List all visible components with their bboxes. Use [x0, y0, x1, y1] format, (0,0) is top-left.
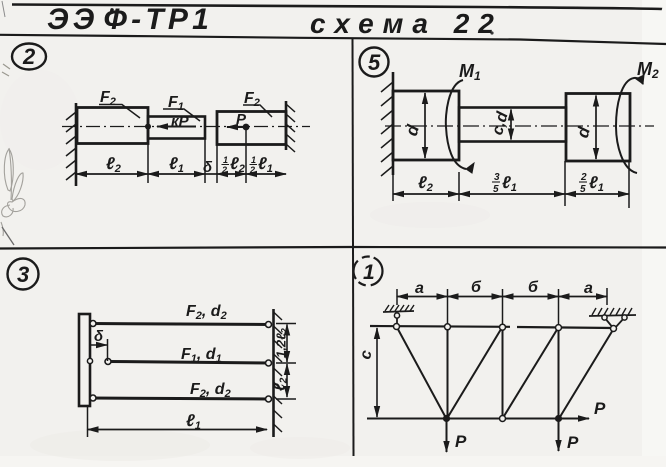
fig2 dimension line half-l1 [246, 173, 286, 175]
fig5 dim label 3/5 l1 [492, 172, 517, 195]
svg-text:2: 2 [22, 44, 36, 69]
frame: header underline [0, 35, 666, 44]
fig2 dimension line half-l2 [217, 173, 246, 175]
circle label 3 [8, 259, 39, 290]
svg-text:а: а [415, 280, 424, 297]
fig2 bar segment F1 (middle rectangle) [148, 117, 205, 139]
fig1 right support hatching [589, 315, 636, 316]
fig5 axis center line [385, 125, 654, 127]
fig5 extension lines [393, 161, 629, 208]
fig3 top rod F2,d2 [90, 324, 270, 325]
fig1 dimension a (right) [559, 296, 608, 298]
frame: middle horizontal divider [0, 247, 666, 249]
fig3 left plate [79, 314, 90, 406]
circle label 2 [12, 44, 46, 70]
header text: схема 22 [490, 31, 493, 34]
fig2 bar segment F2 (left rectangle) [77, 108, 148, 144]
svg-text:кР: кР [171, 113, 190, 130]
fig2 force arrow P pointing left [227, 126, 243, 128]
header text: ЭЭФ-ТР1 [109, 8, 114, 15]
fig1 truss diagonals [397, 327, 614, 419]
fig1 bottom chord line with force P arrow to the right [367, 418, 589, 420]
svg-text:5: 5 [580, 184, 586, 195]
stray diagonal above circle 3 [2, 227, 14, 245]
svg-text:2: 2 [580, 172, 587, 183]
fig5 torque arc M1 [446, 80, 466, 169]
circle label 1 (sketchy) [354, 257, 383, 286]
svg-text:1: 1 [363, 261, 375, 284]
fig2 node dot P application [243, 124, 250, 131]
fig2 dimension line delta segment [205, 173, 217, 175]
svg-text:5: 5 [368, 50, 381, 75]
fig5 left wall [392, 72, 395, 175]
fig1 left support hatching [383, 311, 414, 312]
frame: vertical divider [353, 39, 354, 457]
stray corner mark top-left [2, 1, 5, 17]
fig1 left support link + pins [396, 314, 398, 326]
fig5 dimension line 3/5 l1 [459, 193, 565, 195]
svg-text:1: 1 [223, 155, 228, 165]
fig2 force arrow kP pointing left [157, 126, 196, 128]
svg-text:3: 3 [17, 262, 29, 287]
fig1 dimension a [397, 296, 448, 298]
svg-text:5: 5 [493, 184, 499, 195]
svg-text:Р: Р [594, 399, 606, 418]
fig1 top chord [370, 326, 613, 328]
svg-text:схема 22: схема 22 [310, 8, 503, 39]
fig1 top chord nodes [394, 324, 400, 330]
fig3 right wall [272, 309, 275, 437]
svg-text:1: 1 [251, 155, 256, 165]
fig5 dimension line 2/5 l1 [565, 193, 629, 195]
fig2 left wall [75, 103, 78, 186]
fig1 top dimension extension ticks [397, 288, 607, 328]
fig2 right wall [285, 101, 288, 150]
circle label 5 [360, 48, 389, 77]
fig1 truss verticals (below chord) [448, 327, 559, 419]
fig1 load arrow P at right bottom node [558, 419, 560, 451]
fig5 diameter arrow d right [595, 96, 597, 160]
fig5 diameter arrow d left [424, 93, 426, 158]
fig5 shaft section 1 (d, left) [393, 91, 459, 160]
fig3 vertical dimension 1,2 l2 [286, 325, 288, 363]
fig2 bar segment F2 (right rectangle) [217, 112, 286, 145]
fig2 node dot at F2/F1 junction [145, 124, 151, 130]
svg-text:Р: Р [455, 432, 467, 451]
frame: top border line [12, 5, 662, 10]
fig1 dimension b (left) [448, 296, 503, 298]
svg-text:δ: δ [203, 159, 213, 176]
fig5 torque arc M2 [616, 78, 643, 173]
svg-text:2: 2 [249, 165, 255, 175]
fig2 extension lines [148, 130, 246, 183]
fig1 height dimension c [376, 328, 378, 417]
fig3 middle rod F1,d1 with gap delta [108, 362, 270, 364]
fig5 diameter arrow c,d middle [510, 110, 512, 140]
fig5 shaft section 2 (c,d middle) [459, 108, 566, 142]
svg-text:2: 2 [221, 165, 227, 175]
fig2 dim label 1/2 l2 [221, 154, 245, 175]
fig5 shaft section 3 (d, right) [566, 94, 630, 162]
svg-text:ЭЭФ-ТР1: ЭЭФ-ТР1 [47, 3, 213, 36]
fig5 dimension line l2 [393, 193, 459, 195]
svg-text:3: 3 [494, 172, 500, 183]
fig2 dimension line l2 [76, 173, 148, 175]
svg-text:б: б [471, 279, 482, 296]
svg-text:δ: δ [94, 328, 104, 345]
fig5 dim label 2/5 l1 [579, 172, 604, 195]
fig1 load arrow P at left bottom node [446, 419, 448, 452]
fig3 vertical dimension l2 [286, 364, 288, 397]
fig1 dimension b (right) [503, 296, 559, 298]
pencil doodle lower-left margin [1, 148, 25, 236]
stray pencil ticks left margin [2, 64, 10, 76]
fig1 right support links + pins [605, 318, 614, 329]
fig1 bottom nodes [443, 415, 450, 422]
fig2 axis center line [62, 126, 310, 128]
fig3 delta dimension [107, 339, 109, 361]
fig2 dimension line l1 [148, 173, 205, 175]
svg-text:Р: Р [236, 111, 247, 128]
fig2 dim label 1/2 l1 [249, 154, 273, 175]
fig3 bottom rod F2,d2 [90, 398, 270, 399]
fig3 right side extension lines [276, 324, 296, 400]
svg-text:а: а [584, 280, 593, 297]
svg-text:б: б [528, 279, 539, 296]
svg-text:Р: Р [567, 433, 579, 452]
fig3 bottom dimension l1 [87, 406, 89, 437]
